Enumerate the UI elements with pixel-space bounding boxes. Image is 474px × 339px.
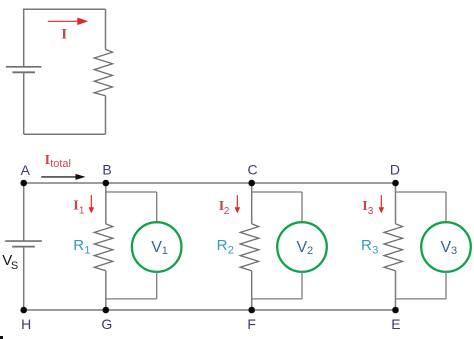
svg-text:G: G: [101, 316, 112, 332]
svg-text:R: R: [217, 237, 228, 254]
resistor R3 zigzag: [384, 224, 403, 271]
current arrow I3 (red, down): [380, 195, 382, 207]
battery VS long plate: [5, 240, 42, 242]
resistor (loop) zigzag: [94, 49, 112, 95]
wire branch1 vertical lower: [105, 271, 107, 310]
node A: [20, 180, 27, 187]
svg-text:V: V: [441, 239, 452, 256]
svg-text:I: I: [73, 198, 78, 213]
svg-text:V: V: [297, 239, 308, 256]
wire meter3 vertical lower: [445, 271, 447, 299]
wire meter3 vertical upper: [445, 192, 447, 223]
svg-text:I: I: [61, 27, 67, 43]
node C: [248, 180, 255, 187]
node G: [103, 307, 110, 314]
node D: [392, 180, 399, 187]
svg-text:3: 3: [372, 245, 378, 257]
wire right of loop upper: [105, 9, 107, 49]
svg-text:F: F: [247, 316, 256, 332]
wire meter2 vertical lower: [301, 271, 303, 299]
svg-text:1: 1: [79, 205, 85, 216]
wire left of loop upper: [23, 9, 25, 67]
svg-text:2: 2: [224, 206, 230, 217]
wire top of loop: [24, 8, 106, 10]
wire meter2 top horizontal: [252, 191, 302, 193]
svg-text:total: total: [50, 158, 71, 170]
svg-text:3: 3: [368, 206, 374, 217]
svg-text:1: 1: [84, 245, 90, 257]
resistor R1 zigzag: [94, 224, 113, 271]
wire branch1 vertical upper: [105, 183, 107, 224]
I_total arrow (black): [41, 176, 76, 178]
node B: [103, 180, 110, 187]
svg-text:E: E: [391, 316, 400, 332]
wire bottom bus H-E: [24, 309, 396, 311]
voltmeter V2 circle: [277, 222, 327, 272]
node H: [20, 307, 27, 314]
node E: [392, 307, 399, 314]
wire meter3 top horizontal: [396, 191, 447, 193]
wire branch2 vertical upper: [251, 183, 253, 224]
wire left of loop lower: [23, 72, 25, 134]
wire meter1 vertical lower: [156, 271, 158, 299]
svg-text:1: 1: [162, 245, 168, 257]
battery B1 long plate: [6, 66, 42, 68]
svg-text:3: 3: [451, 245, 457, 257]
wire meter2 bottom horizontal: [252, 298, 302, 300]
svg-text:V: V: [151, 239, 162, 256]
svg-text:D: D: [390, 161, 400, 177]
wire branch3 vertical upper: [395, 183, 397, 224]
voltmeter V3 circle: [421, 222, 471, 272]
wire left vertical upper: [23, 183, 25, 241]
wire left vertical lower: [23, 247, 25, 310]
voltmeter V1 circle: [132, 222, 182, 272]
wire meter1 top horizontal: [106, 191, 157, 193]
node F: [248, 307, 255, 314]
current arrow I (red): [48, 20, 79, 22]
battery B1 short plate: [12, 71, 35, 73]
wire branch3 vertical lower: [395, 271, 397, 310]
wire meter3 bottom horizontal: [396, 298, 447, 300]
svg-text:R: R: [73, 237, 84, 254]
wire right of loop lower: [105, 96, 107, 135]
corner artifact mark: [0, 336, 3, 339]
svg-text:2: 2: [228, 245, 234, 257]
wire meter1 bottom horizontal: [106, 298, 157, 300]
resistor R2 zigzag: [240, 224, 259, 271]
current arrow I1 (red, down): [90, 195, 92, 207]
svg-text:H: H: [21, 316, 31, 332]
wire top bus A-D: [24, 182, 396, 184]
wire meter1 vertical upper: [156, 192, 158, 223]
svg-text:C: C: [247, 161, 257, 177]
svg-text:R: R: [361, 237, 372, 254]
wire meter2 vertical upper: [301, 192, 303, 223]
svg-text:2: 2: [307, 245, 313, 257]
battery VS short plate: [12, 246, 35, 248]
wire bottom of loop: [24, 133, 106, 135]
svg-text:B: B: [102, 161, 111, 177]
current arrow I2 (red, down): [236, 195, 238, 207]
wire branch2 vertical lower: [251, 271, 253, 310]
svg-text:A: A: [21, 162, 31, 178]
svg-text:S: S: [11, 260, 18, 272]
